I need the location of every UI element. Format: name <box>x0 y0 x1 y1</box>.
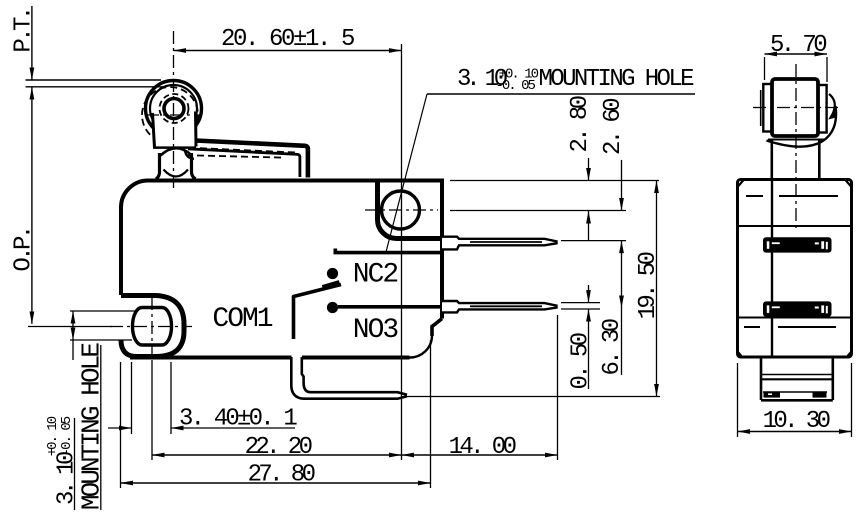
NC terminal slot (side) <box>764 238 831 251</box>
switch body outline (front view) <box>121 180 442 318</box>
svg-text:MOUNTING HOLE: MOUNTING HOLE <box>539 66 695 93</box>
roller dashed (operating position) <box>142 87 198 143</box>
side body mold marks <box>746 195 763 197</box>
top-right mounting ear <box>377 181 441 239</box>
svg-text:NC2: NC2 <box>353 260 398 291</box>
NO terminal pin <box>442 301 557 312</box>
plunger <box>161 148 192 155</box>
svg-text:22. 20: 22. 20 <box>245 434 312 461</box>
svg-text:6. 30: 6. 30 <box>599 319 626 375</box>
side view centerlines <box>795 64 797 232</box>
roller hub pin <box>164 99 184 119</box>
svg-text:10. 30: 10. 30 <box>763 408 830 435</box>
extension line COM terminal bottom <box>406 396 660 398</box>
dim 0.50 <box>588 285 590 303</box>
side plunger stem <box>770 140 773 178</box>
dim 2.80 <box>588 158 590 181</box>
svg-text:P.T.: P.T. <box>11 9 38 52</box>
roller free/operating position lines <box>26 79 162 81</box>
side bottom protrusion <box>760 358 763 400</box>
svg-text:NO3: NO3 <box>353 315 399 346</box>
svg-text:3. 40±0. 1: 3. 40±0. 1 <box>179 406 297 433</box>
dim 10.30 <box>737 363 739 437</box>
NO contact wire <box>338 305 441 309</box>
svg-text:0. 50: 0. 50 <box>568 333 595 389</box>
dim 6.30 <box>621 241 623 375</box>
dim 20.60 line <box>174 50 402 52</box>
svg-text:20. 60±1. 5: 20. 60±1. 5 <box>221 26 354 53</box>
svg-text:19. 50: 19. 50 <box>635 252 662 319</box>
dim 2.60 <box>621 160 623 211</box>
dim P.T. <box>31 6 33 80</box>
extension lines NO terminal <box>561 302 600 304</box>
svg-text:2. 60: 2. 60 <box>600 99 627 155</box>
dim 3.10 left (hole size) <box>70 310 138 312</box>
dim 27.80 <box>120 362 122 488</box>
lever arm (free position) <box>196 141 308 178</box>
svg-text:27. 80: 27. 80 <box>248 462 315 489</box>
bottom-left mounting boss <box>121 296 184 357</box>
side body groove lines <box>738 225 852 227</box>
dim 19.50 <box>656 181 658 397</box>
extension line x401 <box>401 44 403 460</box>
NC contact wire <box>335 249 442 253</box>
NC contact dot <box>327 268 338 279</box>
svg-text:2. 80: 2. 80 <box>567 96 594 152</box>
svg-text:O.P.: O.P. <box>11 228 38 271</box>
top-right hole centerline <box>365 209 438 211</box>
bottom-left hole centerlines <box>28 326 112 328</box>
NO terminal slot (side) <box>764 302 831 315</box>
COM contact lever <box>294 285 342 340</box>
bottom-left mounting hole <box>133 308 172 346</box>
leader line to top-right hole <box>386 94 427 252</box>
side view body <box>738 180 852 358</box>
dim 22.20 <box>151 360 153 460</box>
svg-text:-0. 05: -0. 05 <box>496 78 536 94</box>
extension line body top right <box>450 180 659 182</box>
side roller <box>772 79 818 136</box>
roller outer (free position) <box>146 81 202 137</box>
svg-text:-0. 05: -0. 05 <box>59 416 75 456</box>
extension line NC terminal <box>561 240 626 242</box>
roller centerlines <box>173 31 175 190</box>
side lever spring curl <box>767 106 837 147</box>
NC terminal pin <box>442 237 557 250</box>
COM terminal pin <box>291 357 407 399</box>
extension line hole center right <box>450 210 626 212</box>
side body bottom chamfers <box>738 352 743 358</box>
side body top chamfers <box>738 180 745 188</box>
side lever spring hook <box>829 94 835 118</box>
COM terminal slot (side) <box>763 391 827 393</box>
top-right mounting hole <box>382 191 420 229</box>
side roller bracket plates <box>763 84 772 132</box>
svg-text:COM1: COM1 <box>212 304 272 335</box>
svg-text:14. 00: 14. 00 <box>449 434 516 461</box>
svg-text:MOUNTING HOLE: MOUNTING HOLE <box>77 343 107 510</box>
lever bracket <box>153 112 197 148</box>
dim O.P. <box>30 87 35 100</box>
svg-text:5. 70: 5. 70 <box>770 32 826 59</box>
dim 5.70 <box>764 57 766 80</box>
NO contact dot <box>327 302 338 313</box>
dim 3.40 <box>131 362 133 434</box>
lever arm dashed (operating position) <box>200 148 298 152</box>
side body parting line <box>771 180 773 358</box>
dim 14.00 <box>557 315 559 460</box>
